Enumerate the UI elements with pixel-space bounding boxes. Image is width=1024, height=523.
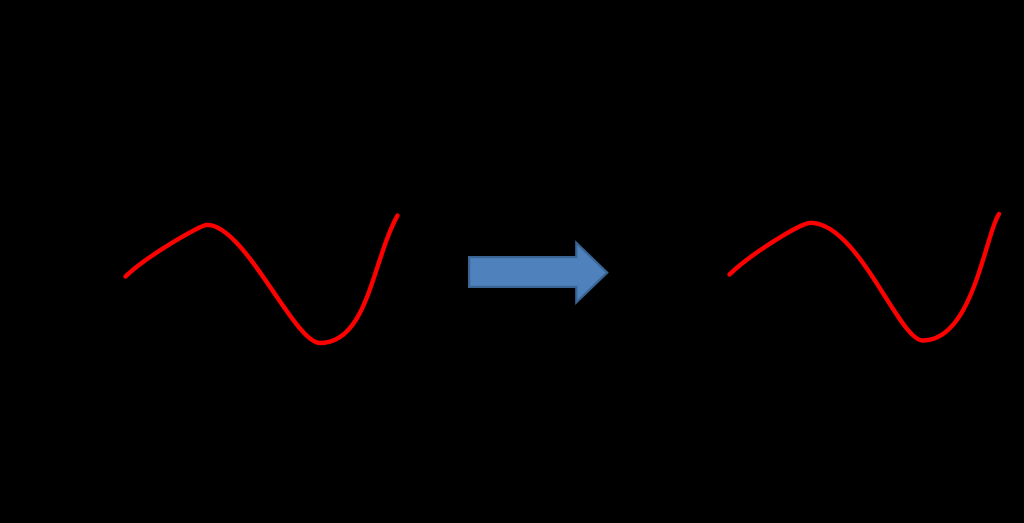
left sine curve (126, 216, 398, 344)
arrow (469, 243, 607, 303)
right sine curve (730, 214, 1000, 341)
